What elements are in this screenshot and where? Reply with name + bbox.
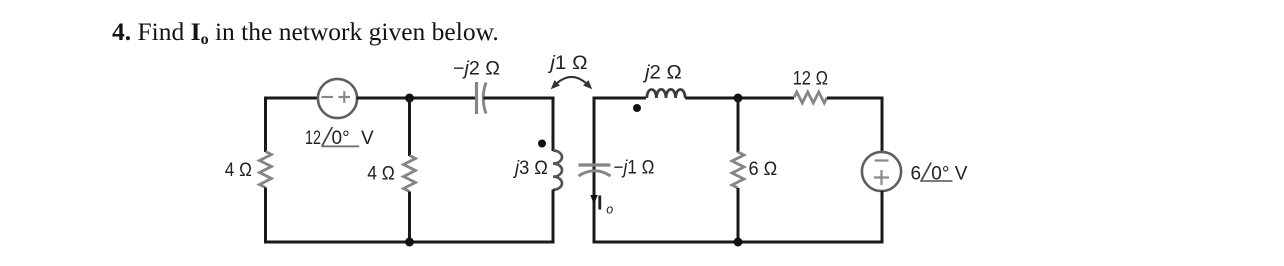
V1 minus sign [322,96,334,98]
svg-text:j2 Ω: j2 Ω [642,63,682,84]
problem statement text [112,17,499,49]
wire: right loop right vertical lower [881,191,884,244]
inductor L2 j2 ohm (horizontal coil) [647,89,685,98]
wire: left loop right vertical upper [552,97,555,152]
label: Io [597,193,613,217]
label: 6 angle 0 deg V [911,163,968,185]
svg-text:4 Ω: 4 Ω [367,164,395,185]
wire: right loop bottom [593,241,884,244]
wire: left loop top, from left corner to source [264,97,319,100]
svg-text:12 Ω: 12 Ω [793,68,828,89]
wire: right loop left vertical (full) [593,97,596,244]
capacitor C2 -j1 ohm top plate [579,163,611,166]
capacitor C1 -j2 ohm right curved plate [483,83,486,114]
wire: right loop top, resistor to top-right corner [827,97,884,100]
node A junction dot (top of middle branch) [405,94,414,103]
node: bottom of middle branch junction dot [405,238,414,247]
voltage source V1 circle [318,79,357,118]
coupling dot for L2 [633,104,641,112]
wire: left loop left vertical (top part) [264,97,267,153]
resistor R4 6 ohm (vertical) [732,152,744,188]
current Io arrowhead [590,195,597,205]
svg-text:4 Ω: 4 Ω [225,160,252,181]
wire: right loop top, inductor to 12 ohm resistor [685,97,794,100]
wire: left loop left vertical (bottom part) [264,188,267,244]
mutual inductance arrow j1 ohm [551,77,592,89]
svg-text:12: 12 [305,128,321,149]
wire: right loop top, corner to inductor [593,97,647,100]
coupling dot for L1 [538,140,546,148]
wire: right loop right vertical upper [881,97,884,153]
svg-text:j3 Ω: j3 Ω [512,158,548,179]
svg-text:−j1 Ω: −j1 Ω [614,158,655,179]
wire: top, capacitor to top-right corner of left loop [484,97,555,100]
node: bottom of 6 ohm branch junction dot [734,238,743,247]
svg-text:V: V [361,128,374,149]
wire: top, source to node A [357,97,477,100]
wire: left loop right vertical lower [552,190,555,244]
V1 plus sign [339,91,351,102]
V2 plus sign [874,170,889,185]
label: 12 angle 0 deg V [305,127,374,149]
svg-text:o: o [606,203,613,217]
capacitor C2 -j1 ohm bottom curved plate [579,171,611,176]
wire: 6 ohm branch upper [737,98,740,153]
svg-text:I: I [597,193,603,215]
resistor R3 12 ohm (horizontal) [794,92,827,103]
resistor R2 4ohm middle [404,156,416,192]
svg-text:j1 Ω: j1 Ω [547,53,588,74]
inductor L1 j3 ohm (vertical coil) [553,151,562,190]
svg-text:−j2 Ω: −j2 Ω [453,59,500,80]
svg-text:V: V [955,163,968,184]
wire: 6 ohm branch lower [737,188,740,242]
svg-text:6 Ω: 6 Ω [749,159,778,180]
node B junction dot (top of 6 ohm branch) [734,94,743,103]
svg-text:6: 6 [911,163,922,184]
wire: left loop bottom [264,241,555,244]
capacitor C1 -j2 ohm left plate [475,82,478,114]
wire: middle branch lower [408,192,411,243]
V2 minus sign [875,159,889,161]
resistor R1 4ohm left [260,152,272,188]
wire: middle branch upper [408,98,411,156]
voltage source V2 circle [862,152,901,191]
